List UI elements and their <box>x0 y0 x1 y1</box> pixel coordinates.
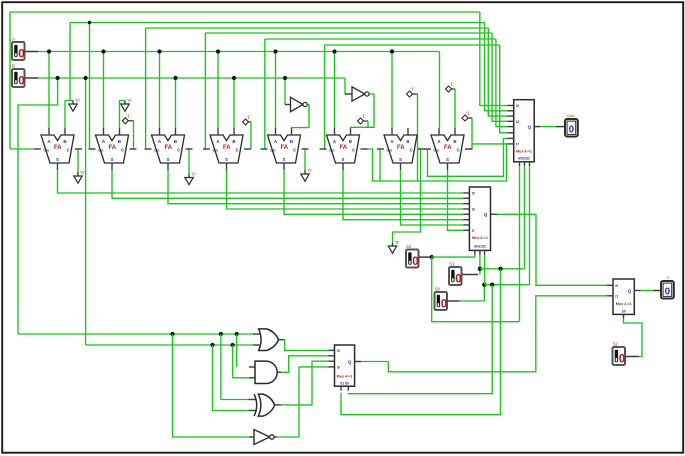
mux U12 Mux 2->1 <box>613 279 634 314</box>
wire FA6.S to Mux2 I5 <box>343 170 463 220</box>
svg-text:I0: I0 <box>472 192 475 196</box>
svg-text:0: 0 <box>441 298 447 310</box>
svg-text:‘0’: ‘0’ <box>127 98 132 103</box>
wire net B <box>38 77 345 79</box>
wire NOT3 out to Mux3.I3 <box>274 436 277 438</box>
svg-text:Mux 8->1: Mux 8->1 <box>472 236 488 240</box>
node rail1 j3 <box>235 332 239 336</box>
svg-text:‘1’: ‘1’ <box>466 111 471 116</box>
wire S0 to Mux3 sel-right <box>348 285 492 394</box>
wire FA1.Cout drop <box>77 149 79 172</box>
svg-text:Cin: Cin <box>212 149 217 153</box>
svg-text:S: S <box>56 157 59 162</box>
constant 1 (diamond) near FA4 <box>243 119 249 125</box>
svg-text:‘0’: ‘0’ <box>191 172 196 177</box>
svg-text:Cin: Cin <box>43 149 48 153</box>
svg-text:C: C <box>352 148 355 153</box>
node B-junction 1 <box>56 76 60 80</box>
wire NOT1 output to FA5.B <box>292 105 310 129</box>
xor-gate G3 <box>248 399 256 401</box>
wire rail1 drop to AND.in1 <box>236 334 238 367</box>
wire S0 run <box>460 300 485 302</box>
constant 0 (triangle) below FA5 <box>301 174 309 181</box>
constant 1 (diamond) near FA7 <box>358 118 364 124</box>
wire FA7.Cout to lower constant <box>393 149 421 243</box>
constant 0 (triangle) at FA2.B <box>121 104 129 111</box>
wire rail riser to FA7.Cin <box>379 149 381 181</box>
svg-text:0: 0 <box>569 125 575 136</box>
svg-text:FA: FA <box>397 145 405 151</box>
wire AND out to Mux3.I1 <box>277 371 281 373</box>
svg-text:FA: FA <box>108 145 116 151</box>
constant 0 (triangle) at FA1.B <box>69 104 77 111</box>
wire bus2 net C1 <box>70 22 485 24</box>
or-gate G1 <box>253 333 260 335</box>
svg-text:C: C <box>121 148 124 153</box>
svg-text:B: B <box>232 139 235 144</box>
svg-text:C: C <box>410 148 413 153</box>
node B-junction 2 <box>84 76 88 80</box>
wire S0 riser to Mux2 sel2 <box>484 255 486 285</box>
svg-text:S1: S1 <box>449 262 455 267</box>
full-adder FA1 (U1) <box>41 135 74 163</box>
constant 1 (diamond) at FA8.Cout <box>462 115 468 121</box>
svg-text:B: B <box>12 64 15 69</box>
wire const1 to FA8.B <box>452 88 456 90</box>
svg-text:‘0’: ‘0’ <box>75 98 80 103</box>
svg-text:I1: I1 <box>615 294 618 298</box>
constant 1 (diamond) at FA8.B <box>446 86 452 92</box>
svg-text:Cin: Cin <box>433 149 438 153</box>
wire FA1.S to Mux2 I0 <box>58 170 464 193</box>
svg-text:I0: I0 <box>516 104 519 108</box>
svg-text:S: S <box>111 157 114 162</box>
wire FA8.Cin rail to Mux1 I6 <box>428 138 508 176</box>
wire FA3.S to Mux2 I2 <box>168 170 463 204</box>
wire bus5 net C4 <box>265 38 496 40</box>
full-adder FA2 (U2) <box>96 135 129 163</box>
svg-text:Cin: Cin <box>98 149 103 153</box>
node B-junction 3 <box>173 76 177 80</box>
node B-junction 5 <box>283 76 287 80</box>
svg-text:‘0’: ‘0’ <box>80 170 85 175</box>
inverter NOT2 <box>345 93 352 95</box>
wire A pin stub <box>25 51 39 53</box>
svg-text:‘1’: ‘1’ <box>126 113 131 118</box>
wire Mux1 sel0 drop <box>519 166 521 322</box>
wire S1 to Mux3 sel-left <box>341 269 501 415</box>
svg-text:FA: FA <box>54 145 62 151</box>
wire S1 stub <box>462 274 479 276</box>
svg-text:S2: S2 <box>406 244 412 249</box>
constant 1 (diamond) near FA2 <box>122 118 128 124</box>
wire FA2.S to Mux2 I1 <box>112 170 463 198</box>
svg-text:Mux 2->1: Mux 2->1 <box>616 302 632 306</box>
wire bus6 net C5 <box>325 44 500 46</box>
wire A drop to FA3 <box>159 52 161 129</box>
svg-text:B: B <box>174 139 177 144</box>
wire B drop to lower-left rail <box>18 78 58 334</box>
wire FA8.Cout to Mux1 I7 <box>465 118 472 149</box>
wire A drop to FA1 <box>48 52 50 129</box>
wire A drop to FA7 <box>391 52 393 129</box>
wire rail1 drop to NOT3 <box>173 334 250 437</box>
svg-text:Cin: Cin <box>154 149 159 153</box>
mux U11 Mux 4->1 <box>335 345 355 386</box>
svg-text:FA: FA <box>223 145 231 151</box>
svg-text:S1 S0: S1 S0 <box>340 381 349 385</box>
node S0 branch <box>490 283 494 287</box>
svg-text:Q: Q <box>628 288 632 293</box>
svg-text:I0: I0 <box>337 349 340 353</box>
svg-text:0: 0 <box>455 273 461 285</box>
node S0 junction <box>482 283 486 287</box>
wire FA5.S to Mux2 I4 <box>284 170 463 214</box>
wire S2 to Mux1 sel0 <box>432 257 520 322</box>
svg-text:Mux 4->1: Mux 4->1 <box>337 375 353 379</box>
svg-text:B: B <box>406 139 409 144</box>
svg-text:‘1’: ‘1’ <box>362 114 367 119</box>
wire const1 to FA2.Cout <box>128 120 133 122</box>
svg-text:C: C <box>177 148 180 153</box>
svg-text:Cin: Cin <box>270 149 275 153</box>
mux U9 Mux 8->1 (carry) <box>514 100 535 162</box>
svg-text:0: 0 <box>18 48 24 60</box>
wire A drop to FA4 <box>217 52 219 129</box>
wire rail1 drop to XOR.in1 <box>221 334 249 400</box>
svg-text:S: S <box>283 157 286 162</box>
node A-junction 7 <box>390 49 394 53</box>
inverter NOT3 <box>249 436 254 438</box>
wire NOT2 output to FA6.B <box>351 94 375 128</box>
wire const0 to FA1.B <box>65 101 73 129</box>
node A-junction 4 <box>216 49 220 53</box>
wire const1 drop to carry rail <box>413 93 418 95</box>
svg-text:B: B <box>349 139 352 144</box>
wire FA3.Cout drop <box>188 149 190 174</box>
node A-junction 5 <box>273 49 277 53</box>
wire S2b to Mux4 select <box>625 356 639 358</box>
wire bus4 net C3 <box>205 32 492 34</box>
wire const1 near FA7 <box>364 120 369 122</box>
svg-text:0: 0 <box>665 287 671 298</box>
wire S0 stub <box>447 300 460 302</box>
node B-junction 4 <box>232 76 236 80</box>
svg-text:Mux 8->1: Mux 8->1 <box>516 150 532 154</box>
wire Mux3.Q to Mux4.I1 <box>361 361 388 363</box>
svg-text:S0: S0 <box>622 309 626 313</box>
svg-text:S: S <box>446 157 449 162</box>
svg-text:C: C <box>67 148 70 153</box>
wire XOR out to Mux3.I2 <box>275 404 282 406</box>
wire Mux2.Q to Mux4.I0 <box>497 213 536 215</box>
wire FA5.Cout drop <box>304 149 306 170</box>
wire S1 row to Mux1 sel1 <box>480 268 525 270</box>
full-adder FA3 (U3) <box>152 135 185 163</box>
wire S1 riser to Mux2 sel1 <box>479 255 481 275</box>
constant 0 (triangle) below FA1 <box>74 176 82 183</box>
svg-text:Cin: Cin <box>386 149 391 153</box>
node rail1 j2 <box>219 332 223 336</box>
and-gate G2 <box>249 366 255 368</box>
svg-text:S: S <box>167 157 170 162</box>
wire rail2 drop to XOR.in2 <box>213 345 249 411</box>
wire rail2 drop to AND.in2 <box>233 345 249 378</box>
svg-text:C: C <box>457 148 460 153</box>
svg-text:I0: I0 <box>615 284 618 288</box>
svg-text:I7: I7 <box>516 143 519 147</box>
svg-text:S0S1S2: S0S1S2 <box>474 245 486 249</box>
svg-text:S2: S2 <box>613 342 619 347</box>
svg-text:FA: FA <box>164 145 172 151</box>
node A-junction 2 <box>101 49 105 53</box>
svg-text:FA: FA <box>280 145 288 151</box>
svg-text:C: C <box>236 148 239 153</box>
wire B drop to FA3.B <box>175 78 177 128</box>
svg-text:Q: Q <box>528 125 532 130</box>
node A-junction 1 <box>47 49 51 53</box>
svg-text:0: 0 <box>18 75 24 87</box>
svg-text:A: A <box>12 37 15 42</box>
svg-text:‘1’: ‘1’ <box>450 82 455 87</box>
svg-text:S: S <box>342 157 345 162</box>
wire rail1 (B) to gates <box>18 333 253 335</box>
wire B drop rail 2 <box>85 78 87 345</box>
node S2 junction <box>430 255 434 259</box>
svg-text:S: S <box>225 157 228 162</box>
wire A drop to FA2 <box>103 52 105 129</box>
constant 1 (diamond) upper <box>407 91 413 97</box>
wire S0 row to Mux1 sel2 <box>484 284 529 286</box>
wire OR out to Mux3.I0 <box>279 339 285 341</box>
full-adder FA8 (U8) <box>431 135 464 163</box>
wire FA6.Cout rail <box>368 144 507 181</box>
node A-junction 6 <box>332 49 336 53</box>
wire Mux1 sel1 drop <box>524 166 526 269</box>
svg-text:0: 0 <box>412 256 418 268</box>
wire FA7.S to Mux2 I6 <box>401 170 464 225</box>
full-adder FA5 (U5) <box>268 135 301 163</box>
svg-text:S0: S0 <box>435 287 441 292</box>
wire A drop to FA5 <box>275 52 277 129</box>
wire B drop to FA4.B <box>233 78 235 128</box>
constant 0 (triangle) below FA3 <box>185 178 193 185</box>
svg-text:‘0’: ‘0’ <box>395 240 400 245</box>
svg-text:C: C <box>293 148 296 153</box>
wire B pin stub <box>25 77 39 79</box>
node S1 junction <box>478 267 482 271</box>
wire S2 stub <box>419 256 432 258</box>
node A-junction 3 <box>157 49 161 53</box>
svg-text:I3: I3 <box>337 366 340 370</box>
wire S2 to Mux2 sel0 <box>432 256 475 258</box>
wire A drop to FA6 <box>334 52 336 129</box>
svg-text:‘1’: ‘1’ <box>411 87 416 92</box>
node rail1 j1 <box>170 332 174 336</box>
wire const1 stub at FA8.Cout <box>468 117 472 119</box>
wire bus3 net C2 <box>146 27 489 29</box>
svg-text:B: B <box>453 139 456 144</box>
constant 0 (triangle) below FA7 <box>388 246 396 253</box>
full-adder FA7 (U7) <box>384 135 417 163</box>
svg-text:0: 0 <box>619 353 625 365</box>
wire bus1 net Cin0 <box>10 11 480 13</box>
svg-text:S: S <box>399 157 402 162</box>
wire FA4.S to Mux2 I3 <box>227 170 464 209</box>
svg-text:B: B <box>63 139 66 144</box>
svg-text:I3: I3 <box>472 208 475 212</box>
svg-text:Cout: Cout <box>567 114 575 118</box>
wire const1 to FA4.Cout <box>249 121 252 123</box>
svg-text:Q: Q <box>348 359 352 364</box>
svg-text:B: B <box>118 139 121 144</box>
wire rail2 (B) to gates <box>86 344 253 346</box>
wire net A <box>38 51 440 53</box>
svg-text:I7: I7 <box>472 229 475 233</box>
mux U10 Mux 8->1 (sum) <box>469 187 490 250</box>
node rail2 j1 <box>210 343 214 347</box>
wire Mux4.Q to Y pin <box>641 290 653 292</box>
wire B drop to NOT1 <box>284 78 286 105</box>
svg-text:‘1’: ‘1’ <box>247 115 252 120</box>
svg-text:I3: I3 <box>516 120 519 124</box>
inverter NOT1 <box>285 104 291 106</box>
svg-text:FA: FA <box>339 145 347 151</box>
wire const0 to FA2.B <box>120 101 126 129</box>
svg-text:Q: Q <box>484 212 488 217</box>
full-adder FA6 (U6) <box>327 135 360 163</box>
svg-text:‘0’: ‘0’ <box>307 168 312 173</box>
wire FA8.S to Mux2 I7 <box>448 170 464 230</box>
svg-text:Cin: Cin <box>329 149 334 153</box>
svg-text:FA: FA <box>444 145 452 151</box>
wire Mux1.Q to Cout pin <box>541 126 556 128</box>
svg-text:B: B <box>290 139 293 144</box>
wire Mux1 sel2 drop <box>529 166 531 285</box>
node rail2 j2 <box>231 343 235 347</box>
full-adder FA4 (U4) <box>210 135 243 163</box>
node S1 branch <box>498 267 502 271</box>
svg-text:S0S1S2: S0S1S2 <box>518 157 530 161</box>
